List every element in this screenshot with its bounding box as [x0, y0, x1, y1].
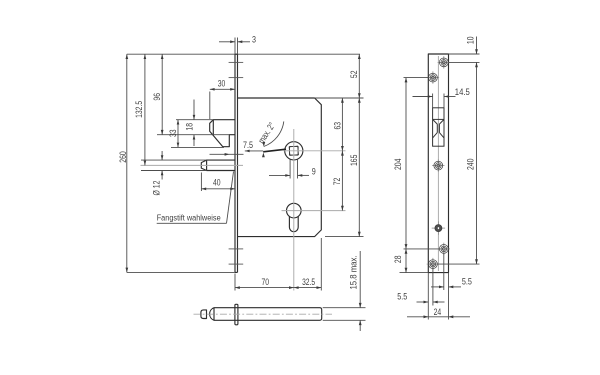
svg-text:28: 28 — [393, 255, 403, 263]
svg-text:3: 3 — [252, 34, 256, 44]
svg-text:32.5: 32.5 — [302, 277, 315, 287]
svg-text:5.5: 5.5 — [397, 292, 407, 302]
svg-text:52: 52 — [349, 71, 359, 79]
svg-text:72: 72 — [332, 178, 342, 186]
svg-text:33: 33 — [168, 129, 178, 137]
svg-text:63: 63 — [332, 122, 342, 130]
svg-text:96: 96 — [152, 93, 162, 101]
svg-text:Ø 12: Ø 12 — [152, 181, 162, 196]
svg-text:260: 260 — [118, 151, 128, 163]
svg-text:240: 240 — [465, 159, 475, 171]
svg-text:40: 40 — [213, 178, 221, 188]
svg-text:204: 204 — [393, 159, 403, 171]
svg-text:70: 70 — [262, 277, 270, 287]
svg-text:165: 165 — [349, 155, 359, 167]
svg-text:Fangstift wahlweise: Fangstift wahlweise — [157, 213, 221, 222]
svg-text:14.5: 14.5 — [455, 87, 470, 97]
svg-text:30: 30 — [218, 78, 226, 88]
svg-text:10: 10 — [466, 37, 476, 45]
svg-text:5.5: 5.5 — [462, 277, 472, 287]
svg-text:9: 9 — [312, 166, 316, 176]
svg-text:132.5: 132.5 — [134, 101, 144, 118]
svg-text:18: 18 — [184, 123, 194, 131]
svg-text:24: 24 — [434, 307, 442, 317]
svg-text:7.5: 7.5 — [243, 140, 253, 150]
svg-text:15.8 max.: 15.8 max. — [349, 256, 359, 290]
